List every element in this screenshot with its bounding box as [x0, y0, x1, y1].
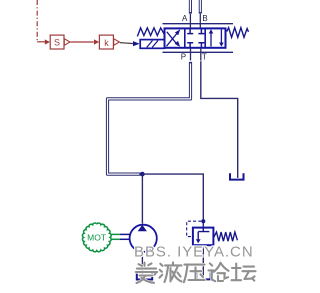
svg-text:S: S	[54, 38, 60, 48]
relief valve RV1 body	[193, 228, 214, 246]
svg-text:A: A	[182, 14, 188, 23]
svg-text:k: k	[104, 38, 109, 48]
watermark chinese 爱	[136, 263, 157, 283]
valve position 2 blocked center	[187, 28, 204, 47]
wire: junction to relief valve	[142, 174, 203, 228]
svg-text:BBS. IYEYA.CN: BBS. IYEYA.CN	[134, 244, 254, 261]
wire: P pressure line (double) to junction	[108, 62, 191, 174]
valve V1 proportional rails	[163, 23, 234, 25]
port P stub	[190, 48, 192, 61]
port T stub	[200, 48, 202, 61]
tank T3 (pump suction)	[137, 272, 152, 279]
watermark chinese 液	[160, 262, 182, 282]
wire: red dash-dot setpoint input	[36, 0, 38, 41]
svg-text:MOT: MOT	[87, 233, 106, 243]
solenoid (proportional)	[140, 40, 164, 49]
arrow into solenoid	[133, 41, 140, 46]
watermark chinese 论	[209, 263, 229, 281]
wire: red line into S	[37, 41, 45, 43]
wire: S to k	[70, 41, 94, 43]
spring left	[137, 28, 164, 37]
tank T2 (relief drain)	[196, 273, 210, 280]
wire: pump suction	[141, 252, 143, 276]
spring right	[227, 28, 249, 38]
valve V1 body	[165, 28, 226, 47]
relief valve internal path	[198, 228, 209, 240]
block S	[50, 35, 70, 49]
port B line (double, from top edge)	[199, 0, 202, 28]
tank T1 (right)	[230, 173, 244, 179]
wire: relief valve drain	[202, 245, 204, 276]
svg-text:B: B	[202, 14, 207, 23]
wire: junction to pump	[141, 174, 143, 224]
valve position 3 parallel arrows	[209, 29, 224, 46]
arrow into k	[94, 39, 99, 44]
valve position 1 crossed arrows	[167, 29, 181, 47]
wire: T return line to tank	[201, 61, 238, 178]
pump P1	[130, 225, 157, 252]
watermark chinese 压	[184, 265, 205, 283]
svg-text:T: T	[202, 52, 207, 61]
wire: k to valve solenoid	[120, 43, 134, 44]
junction node	[140, 172, 145, 177]
node on relief line	[201, 219, 205, 223]
watermark chinese 坛	[232, 264, 256, 281]
arrow into S	[45, 39, 50, 44]
relief valve pilot line (dashed)	[187, 221, 202, 236]
block k	[99, 35, 119, 49]
shaft motor-pump	[111, 234, 130, 239]
svg-text:P: P	[181, 52, 186, 61]
port A line (double, from top edge)	[189, 0, 192, 28]
motor M1	[82, 223, 111, 252]
relief valve spring	[214, 232, 238, 241]
